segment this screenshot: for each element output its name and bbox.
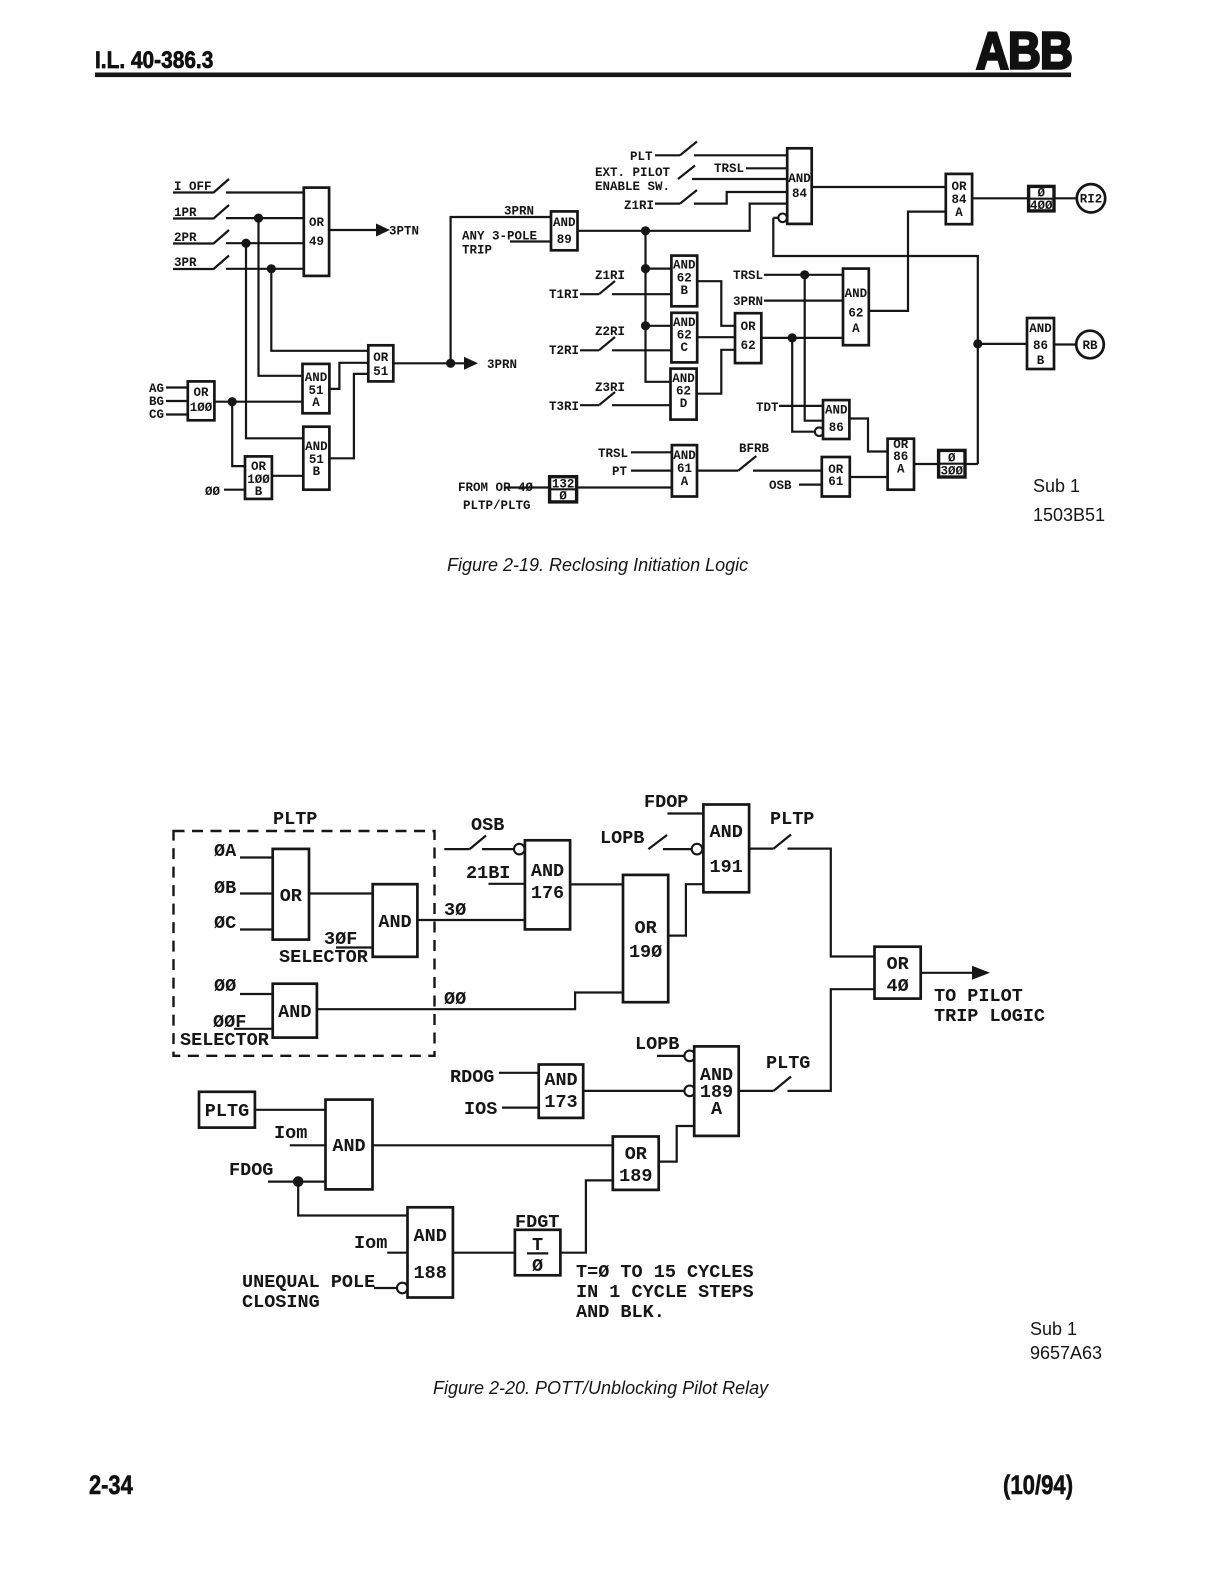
svg-text:A: A [897,463,905,477]
wire OR61 output to OR86A [850,476,888,478]
wire 3PR underline stub [173,268,213,270]
wire 3PF stub to AND [336,946,373,948]
wire AND61A output stub [697,470,738,472]
svg-text:AG: AG [149,382,164,396]
wire tap to AND62C [646,325,672,327]
svg-text:86: 86 [829,421,844,435]
wire PLTG to OR40 [788,989,875,1091]
wire FDOP to AND191 [667,812,703,814]
gate OR 49 [304,188,329,276]
svg-text:C: C [681,341,689,355]
svg-text:LOPB: LOPB [635,1034,679,1055]
svg-text:9657A63: 9657A63 [1030,1343,1102,1363]
svg-text:AND: AND [673,449,696,463]
svg-text:TDT: TDT [756,401,779,415]
wire OR100B output to AND51B [272,475,303,477]
gate OR 40 [875,947,921,999]
wire Iom to AND188 [387,1252,407,1254]
junction 3PRN node [446,359,455,368]
svg-text:TRIP: TRIP [462,244,492,258]
gate OR 84 A [946,174,972,224]
svg-text:21BI: 21BI [466,863,510,884]
wire ANY 3-POLE TRIP to AND89 [510,240,551,242]
svg-text:BG: BG [149,395,164,409]
svg-text:A: A [681,475,689,489]
wire 21BI to AND176 [489,883,525,885]
wire OR to AND selector [309,892,373,894]
wire AND84 feedback loop [773,218,978,464]
svg-text:AND: AND [414,1226,447,1247]
wire T3RI to AND62D [612,404,671,406]
wire AND62C output to OR62 [697,336,735,338]
svg-text:SELECTOR: SELECTOR [180,1030,270,1051]
header rule [95,73,1071,78]
svg-text:Iom: Iom [354,1233,387,1254]
bubble AND189A input 1 [684,1051,695,1062]
switch 2PR blade [213,230,229,244]
wire T2RI stub [580,349,599,351]
wire timer 0/300 to feedback vertical [965,463,978,465]
svg-text:AND: AND [332,1136,365,1157]
svg-text:84: 84 [792,187,808,201]
switch T1RI blade [599,281,615,294]
svg-text:ØA: ØA [214,841,237,862]
wire phase-0 to AND [240,993,273,995]
switch T2RI blade [599,337,615,350]
svg-text:62: 62 [741,339,756,353]
svg-text:FDOP: FDOP [644,792,688,813]
svg-text:3PRN: 3PRN [504,205,534,219]
svg-text:1503B51: 1503B51 [1033,505,1105,525]
svg-text:84: 84 [951,193,967,207]
ABB logo [976,23,1072,80]
node box PLTG [199,1092,255,1128]
junction OR100 output node [228,397,237,406]
svg-text:TO PILOT: TO PILOT [934,986,1023,1007]
gate OR 100 [188,381,215,420]
arrowhead TO PILOT TRIP [972,966,990,980]
wire Z1RI stub [655,203,680,205]
wire PLT stub [655,154,680,156]
junction RB branch node [973,339,982,348]
svg-text:Figure 2-19. Reclosing Initiat: Figure 2-19. Reclosing Initiation Logic [447,555,748,575]
wire UNEQUAL POLE CLOSING to bubble [374,1287,397,1289]
wire T1RI stub [580,293,599,295]
wire AND unnumbered output to OR189 [373,1144,613,1146]
wire 3PRN to AND62A [764,300,843,302]
wire 2PR to OR49 [226,242,304,244]
gate OR 189 [613,1137,659,1190]
bubble AND189A input 2 [684,1086,695,1097]
svg-text:LOPB: LOPB [600,828,644,849]
switch 1PR blade [213,205,229,219]
wire timer T/0 step to OR189 [560,1180,612,1252]
svg-text:4Ø: 4Ø [886,976,908,997]
svg-text:AND: AND [305,371,328,385]
svg-text:AND: AND [553,216,576,230]
svg-text:EXT. PILOT: EXT. PILOT [595,166,671,180]
svg-text:ØØ: ØØ [444,989,466,1010]
wire AND51B output to OR51 [329,374,368,458]
svg-text:Figure 2-20. POTT/Unblocking P: Figure 2-20. POTT/Unblocking Pilot Relay [433,1378,769,1398]
svg-text:3PTN: 3PTN [389,225,419,239]
wire AND84 output to OR84A [812,186,946,188]
svg-text:Ø: Ø [559,490,567,504]
svg-text:OR: OR [951,180,967,194]
gate AND 62 D [671,369,697,420]
gate AND selector 3PF [373,884,418,957]
gate OR 86 A [888,439,914,490]
gate OR 51 [368,345,393,381]
svg-text:AND: AND [673,259,696,273]
svg-text:AND: AND [710,822,743,843]
wire 3PR to OR49 [226,268,304,270]
svg-text:A: A [312,396,320,410]
svg-text:(10/94): (10/94) [1003,1471,1073,1501]
wire LOPB to bubble [663,848,692,850]
gate AND 86 [823,400,849,439]
wire AND89 output to step [578,204,788,231]
wire T2RI to AND62C [612,349,671,351]
svg-text:19Ø: 19Ø [629,942,662,963]
svg-text:T3RI: T3RI [549,400,579,414]
svg-text:AND BLK.: AND BLK. [576,1302,665,1323]
switch LOPB blade [648,835,667,849]
svg-text:ENABLE SW.: ENABLE SW. [595,180,670,194]
wire phase-0 to OR100B [224,489,245,491]
wire PLTG box to AND [255,1109,326,1111]
gate AND 86 B [1027,318,1054,369]
wire AND62B output to OR62 [697,281,735,326]
wire 3PR vertical to OR51 [271,269,368,351]
wire node to AND86B [978,343,1027,345]
wire TRSL to AND61A [631,451,672,453]
svg-text:Sub 1: Sub 1 [1030,1319,1077,1339]
wire FDOG node to AND188 [298,1182,407,1216]
svg-text:ØØ: ØØ [205,485,221,499]
wire I OFF underline stub [173,191,213,193]
wire AND189A output stub [739,1090,774,1092]
gate AND 189 A [694,1046,739,1136]
switch T3RI blade [599,392,615,405]
switch PLTP blade [774,835,791,849]
wire 1PR underline stub [173,217,213,219]
output RB [1076,331,1104,359]
bubble AND191 input [692,844,703,855]
gate AND 61 A [672,445,697,496]
wire IOS to AND173 [502,1106,539,1108]
svg-text:TRIP LOGIC: TRIP LOGIC [934,1006,1045,1027]
svg-text:OR: OR [625,1144,648,1165]
svg-text:ØB: ØB [214,878,236,899]
svg-text:Iom: Iom [274,1123,307,1144]
gate AND 89 [551,211,578,250]
svg-text:OR: OR [309,216,325,230]
svg-text:OR: OR [741,320,757,334]
svg-text:ØC: ØC [214,913,236,934]
gate AND 84 [787,148,812,224]
wire LOPB to AND189A bubble [657,1055,684,1057]
wire AND output 3-phase to AND176 [417,919,525,921]
svg-text:SELECTOR: SELECTOR [279,947,369,968]
svg-text:AND: AND [1029,322,1052,336]
wire OR100 node to OR100B [232,402,245,466]
svg-text:ØØ: ØØ [214,976,236,997]
dashed selector boundary [174,831,435,1056]
svg-text:TRSL: TRSL [733,269,763,283]
footer page number 2-34 [89,1471,133,1501]
junction TRSL node [800,270,809,279]
wire OR86A output to timer 0/300 [914,463,939,465]
gate AND 51 A [303,364,330,413]
bubble AND176 input [514,844,525,855]
gate OR 190 [623,875,668,1002]
junction 1PR node [254,214,263,223]
svg-text:I.L. 40-386.3: I.L. 40-386.3 [95,47,213,74]
svg-text:PLTP: PLTP [273,809,317,830]
svg-text:OSB: OSB [471,815,504,836]
wire PLT to AND84 [694,154,787,156]
svg-text:61: 61 [828,475,843,489]
switch BFRB blade [738,456,756,471]
wire OR62 output to AND62A [761,337,843,339]
arrowhead 3PTN [376,224,390,237]
svg-text:4ØØ: 4ØØ [1030,199,1053,213]
svg-text:49: 49 [309,235,324,249]
wire OSB stub [444,848,469,850]
wire FROM OR-40 to timer 132/0 [505,486,550,488]
svg-text:Z1RI: Z1RI [624,199,654,213]
wire OR40 output [921,972,972,974]
wire OR190 output step to AND191 [668,884,703,935]
bubble AND86 input [815,427,824,436]
timer 0/300 [939,450,965,477]
svg-text:62: 62 [848,307,863,321]
wire tap to AND62B [646,268,672,270]
svg-text:Sub 1: Sub 1 [1033,476,1080,496]
gate AND 173 [539,1065,584,1118]
wire AND86 output to OR86A [849,419,887,452]
wire OR189 output step to AND189A [659,1126,695,1162]
svg-text:173: 173 [544,1092,577,1113]
svg-text:188: 188 [414,1263,447,1284]
bubble AND188 input [397,1283,408,1294]
wire phase A to OR [240,856,273,858]
wire EXT PILOT to AND84 [692,178,787,180]
svg-text:1ØØ: 1ØØ [190,401,213,415]
svg-text:OR: OR [634,918,657,939]
svg-text:189: 189 [619,1166,652,1187]
wire AND173 output to AND189A bubble [583,1090,684,1092]
svg-text:89: 89 [557,233,572,247]
svg-text:3PRN: 3PRN [733,295,763,309]
wire phase C to OR [240,928,273,930]
wire RDOG to AND173 [499,1072,539,1074]
wire AND188 output to timer [453,1252,515,1254]
wire OR100 output to AND51A [214,401,302,403]
gate OR 62 [735,313,761,363]
wire OSB to OR61 [799,484,822,486]
gate AND selector 00F [273,984,317,1038]
wire AND output phase-0 to OR190 [317,993,623,1010]
svg-text:OR: OR [251,460,267,474]
gate OR selector [273,849,309,940]
wire TRSL to AND84 [746,167,787,169]
svg-text:OR: OR [886,954,909,975]
svg-text:PLTG: PLTG [205,1101,249,1122]
wire 2PR underline stub [173,242,213,244]
svg-text:CLOSING: CLOSING [242,1292,320,1313]
svg-text:TRSL: TRSL [714,162,744,176]
svg-text:RI2: RI2 [1080,193,1103,207]
svg-text:AND: AND [788,172,811,186]
wire phase-0F stub to AND [234,1028,273,1030]
wire PT to AND61A [631,470,672,472]
wire AND51A output to OR51 [329,363,368,389]
switch OSB blade [470,836,486,850]
svg-text:IOS: IOS [464,1099,497,1120]
svg-text:3Ø: 3Ø [444,900,466,921]
svg-text:IN 1 CYCLE STEPS: IN 1 CYCLE STEPS [576,1282,754,1303]
svg-text:PLTP/PLTG: PLTP/PLTG [463,499,531,513]
svg-text:Z2RI: Z2RI [595,325,625,339]
wire AND62A output step to OR84A [869,212,946,311]
gate OR 61 [822,457,850,497]
svg-text:AND: AND [278,1002,311,1023]
svg-text:176: 176 [531,883,564,904]
svg-text:3PRN: 3PRN [487,358,517,372]
wire FDOG to AND [268,1180,326,1182]
svg-text:61: 61 [677,462,692,476]
wire OR62 node to AND86 bubble [792,338,815,432]
gate AND 191 [703,805,749,893]
svg-text:AND: AND [378,912,411,933]
gate OR 100 B [245,456,272,499]
svg-text:RB: RB [1082,339,1098,353]
wire 1PR to OR49 [226,217,304,219]
junction 2PR node [241,239,250,248]
svg-text:51: 51 [373,365,388,379]
wire OR84A output to timer 0/400 [972,197,1029,199]
svg-text:TRSL: TRSL [598,447,628,461]
gate AND 62 A [843,269,869,346]
svg-text:A: A [711,1099,723,1120]
svg-text:2-34: 2-34 [89,1471,133,1501]
svg-text:OR: OR [373,351,389,365]
wire 3PRN node up to AND89 [451,217,551,363]
wire timer to AND61A [577,486,672,488]
svg-text:A: A [955,206,963,220]
wire PLTP to OR40 [788,849,875,957]
svg-text:OSB: OSB [769,479,792,493]
svg-text:ABB: ABB [976,23,1072,80]
svg-text:OR: OR [280,886,303,907]
junction OR62 output node [788,333,797,342]
wire timer 0/400 to RI2 [1054,197,1077,199]
gate AND 62 B [671,256,697,307]
svg-text:T1RI: T1RI [549,288,579,302]
wire AND191 output stub [749,847,774,849]
wire OR49 output [329,229,376,231]
output RI2 [1077,184,1105,212]
timer FDGT T/0 [515,1230,561,1276]
svg-text:B: B [1037,354,1045,368]
svg-text:PLT: PLT [630,150,653,164]
svg-text:PLTP: PLTP [770,809,814,830]
junction FDOG node [293,1176,304,1187]
svg-text:PT: PT [612,465,628,479]
svg-text:Ø: Ø [532,1256,543,1277]
svg-text:AND: AND [531,861,564,882]
wire CG to OR100 [166,413,188,415]
junction AND62B tap [641,264,650,273]
gate AND 188 [408,1207,453,1297]
arrowhead 3PRN [464,357,478,370]
header text I.L. 40-386.3 [95,47,213,74]
wire BG to OR100 [166,400,188,402]
wire TDT to AND86 [779,405,823,407]
wire Iom to AND [290,1144,326,1146]
wire TRSL to AND62A [764,274,843,276]
timer 132/0 [550,477,577,502]
wire AG to OR100 [166,386,188,388]
svg-text:86: 86 [1033,339,1048,353]
timer 0/400 [1029,186,1054,211]
gate AND unnumbered [326,1100,373,1190]
svg-text:B: B [313,465,321,479]
svg-text:T2RI: T2RI [549,344,579,358]
svg-text:OR: OR [193,386,209,400]
footer date (10/94) [1003,1471,1073,1501]
wire BFRB to OR61 [753,470,822,472]
switch I OFF blade [213,179,229,193]
wire I OFF to OR49 [226,191,304,193]
svg-text:AND: AND [305,440,328,454]
svg-text:PLTG: PLTG [766,1053,810,1074]
wire common vertical to AND62 gates [646,231,671,382]
svg-text:UNEQUAL POLE: UNEQUAL POLE [242,1272,375,1293]
bubble AND84 feedback input [778,214,787,223]
wire feedback into bubble [773,217,778,219]
svg-text:AND: AND [825,404,848,418]
svg-text:Z1RI: Z1RI [595,269,625,283]
svg-text:Z3RI: Z3RI [595,381,625,395]
wire OSB to bubble [482,848,514,850]
svg-text:Ø: Ø [948,452,956,466]
wire AND62D output to OR62 [697,350,735,394]
wire AND86B to RB [1054,343,1076,345]
svg-text:RDOG: RDOG [450,1067,494,1088]
junction AND62C tap [641,321,650,330]
svg-text:D: D [680,397,688,411]
gate AND 176 [525,840,570,929]
wire T1RI to AND62B [612,293,671,295]
switch EXT PILOT blade [678,166,695,180]
svg-text:T=Ø TO 15 CYCLES: T=Ø TO 15 CYCLES [576,1262,754,1283]
gate AND 62 C [671,313,697,363]
svg-text:B: B [681,284,689,298]
svg-text:3ØØ: 3ØØ [941,465,964,479]
switch PLT blade [680,142,697,156]
svg-text:FDOG: FDOG [229,1160,273,1181]
svg-text:A: A [852,322,860,336]
switch 3PR blade [213,256,229,270]
wire OR51 output [393,362,464,364]
wire 1PR vertical to AND51A [259,218,303,376]
svg-text:BFRB: BFRB [739,442,770,456]
switch PLTG blade [774,1077,791,1091]
wire TRSL vertical to AND86 [805,275,823,421]
